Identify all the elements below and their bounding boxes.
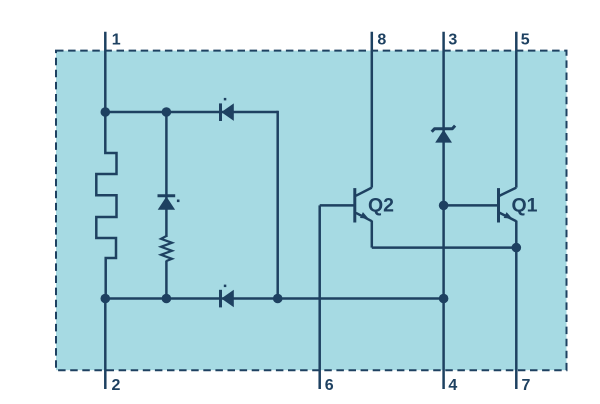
- svg-text:2: 2: [112, 377, 121, 394]
- transistor Q2: [355, 188, 372, 223]
- junction dot (right branch/bottom rail): [273, 294, 283, 304]
- wire Q1 base: [444, 204, 499, 207]
- junction dot (middle branch/top rail): [162, 107, 172, 117]
- svg-text:7: 7: [522, 377, 531, 394]
- wire emitter rail: [372, 246, 517, 249]
- diode D3 (bottom rail, pointing left): [221, 290, 234, 308]
- svg-text:Q1: Q1: [512, 194, 538, 216]
- svg-text:4: 4: [448, 377, 457, 394]
- pin 1 lead: [104, 32, 107, 112]
- diode D2 (on middle branch, pointing up): [158, 196, 176, 210]
- wire right branch vertical: [276, 111, 279, 299]
- resistor R1 (square meander): [96, 112, 116, 299]
- svg-text:Q2: Q2: [368, 194, 394, 216]
- pin 3 / pin 4 line: [442, 32, 445, 389]
- wire top rail: [105, 111, 277, 114]
- pin 6 lead: [318, 205, 321, 389]
- junction dot (pin4 line/bottom rail): [439, 294, 449, 304]
- pin 2 lead: [104, 299, 107, 390]
- junction dot (pin1/top rail): [101, 107, 111, 117]
- pin 8 lead (Q2 collector): [371, 32, 374, 188]
- zener diode D4 (on pin 3 line): [432, 126, 455, 143]
- dot mark near D1: [224, 98, 227, 101]
- junction dot (pin1/bottom rail): [101, 294, 111, 304]
- transistor Q1: [499, 188, 517, 223]
- dot mark near D3: [224, 285, 227, 288]
- junction dot (emitter rail/pin7): [512, 243, 522, 253]
- junction dot (middle branch/bottom rail): [162, 294, 172, 304]
- svg-text:8: 8: [377, 32, 386, 49]
- wire middle branch upper: [165, 112, 168, 237]
- svg-text:1: 1: [112, 32, 121, 49]
- diode D1 (top rail, pointing left): [221, 103, 234, 121]
- dot mark near D2: [177, 200, 180, 203]
- junction dot (pin3 line/Q1 base): [439, 201, 449, 211]
- svg-text:6: 6: [325, 377, 334, 394]
- IC body (dashed outline): [56, 51, 567, 371]
- svg-text:3: 3: [448, 32, 457, 49]
- wire Q2 base: [320, 204, 355, 207]
- wire Q2 emitter vertical: [371, 221, 374, 248]
- resistor R2 (zigzag): [161, 236, 172, 261]
- pin 5 lead (Q1 collector): [515, 32, 518, 188]
- wire middle branch lower: [165, 261, 168, 299]
- pin 7 lead (Q1 emitter): [515, 221, 518, 389]
- wire bottom rail: [105, 297, 443, 300]
- svg-text:5: 5: [521, 32, 530, 49]
